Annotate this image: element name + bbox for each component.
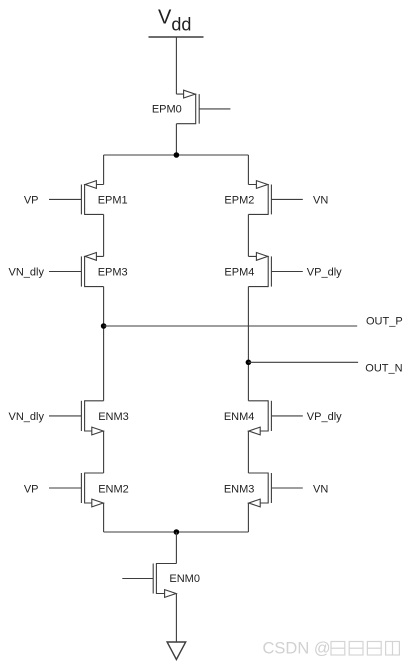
wire EPM3 down through OUT_P node to ENM3 — [103, 287, 105, 401]
svg-text:VP: VP — [24, 195, 39, 207]
transistor ENM0 — [122, 563, 200, 597]
wire ENM3 right to bottom rail — [247, 503, 249, 532]
transistor EPM2 — [224, 181, 302, 215]
wire top rail to EPM2 — [247, 155, 249, 185]
svg-text:ENM4: ENM4 — [224, 411, 255, 423]
svg-text:VN_dly: VN_dly — [9, 267, 45, 279]
svg-text:CSDN @: CSDN @ — [263, 640, 331, 658]
junction dot node OUT_N — [246, 360, 252, 366]
watermark CSDN — [263, 640, 400, 658]
wire Vdd to EPM0 — [175, 37, 177, 94]
transistor EPM4 — [224, 253, 302, 288]
svg-text:OUT_N: OUT_N — [365, 362, 402, 374]
wire EPM2 to EPM4 — [247, 214, 249, 256]
top rail wire — [104, 154, 249, 156]
svg-text:ENM0: ENM0 — [169, 573, 200, 585]
svg-text:ENM3: ENM3 — [98, 411, 129, 423]
junction dot node OUT_P — [101, 323, 107, 329]
transistor EPM3 — [49, 253, 128, 288]
svg-text:VP: VP — [24, 483, 39, 495]
wire EPM0 drain to top rail — [175, 124, 177, 155]
wire ENM2 to bottom rail — [103, 503, 105, 532]
transistor ENM3 (left) — [49, 400, 129, 435]
svg-text:EPM0: EPM0 — [152, 103, 182, 115]
svg-text:Vdd: Vdd — [158, 7, 191, 35]
wire ENM4 to ENM3 (right) — [247, 431, 249, 473]
transistor ENM2 — [49, 473, 129, 507]
wire node OUT_N — [248, 361, 358, 363]
svg-text:EPM3: EPM3 — [98, 267, 128, 279]
wire node OUT_P — [104, 325, 358, 327]
svg-text:VP_dly: VP_dly — [307, 411, 342, 423]
svg-text:VN_dly: VN_dly — [9, 411, 45, 423]
svg-text:EPM1: EPM1 — [98, 195, 128, 207]
transistor ENM3 (right) — [224, 473, 303, 507]
wire ENM3 to ENM2 — [103, 431, 105, 473]
junction dot bottom rail — [174, 529, 180, 535]
transistor ENM4 — [224, 400, 303, 435]
svg-text:VP_dly: VP_dly — [307, 267, 342, 279]
svg-text:OUT_P: OUT_P — [366, 315, 403, 327]
transistor EPM1 — [49, 181, 128, 215]
wire ENM0 source to ground — [175, 594, 177, 643]
wire EPM4 down through OUT_N node to ENM4 — [247, 287, 249, 401]
ground — [167, 642, 186, 660]
svg-text:ENM2: ENM2 — [98, 483, 129, 495]
svg-text:VN: VN — [313, 195, 328, 207]
wire EPM1 to EPM3 — [103, 214, 105, 256]
svg-text:ENM3: ENM3 — [224, 483, 255, 495]
transistor EPM0 — [152, 90, 231, 124]
svg-text:VN: VN — [313, 483, 328, 495]
bottom rail wire — [104, 531, 249, 533]
wire bottom rail to ENM0 — [175, 532, 177, 564]
Vdd rail bar — [149, 36, 204, 38]
junction dot top rail — [174, 152, 180, 158]
svg-text:EPM4: EPM4 — [224, 267, 254, 279]
svg-text:EPM2: EPM2 — [224, 195, 254, 207]
wire top rail to EPM1 — [103, 155, 105, 185]
